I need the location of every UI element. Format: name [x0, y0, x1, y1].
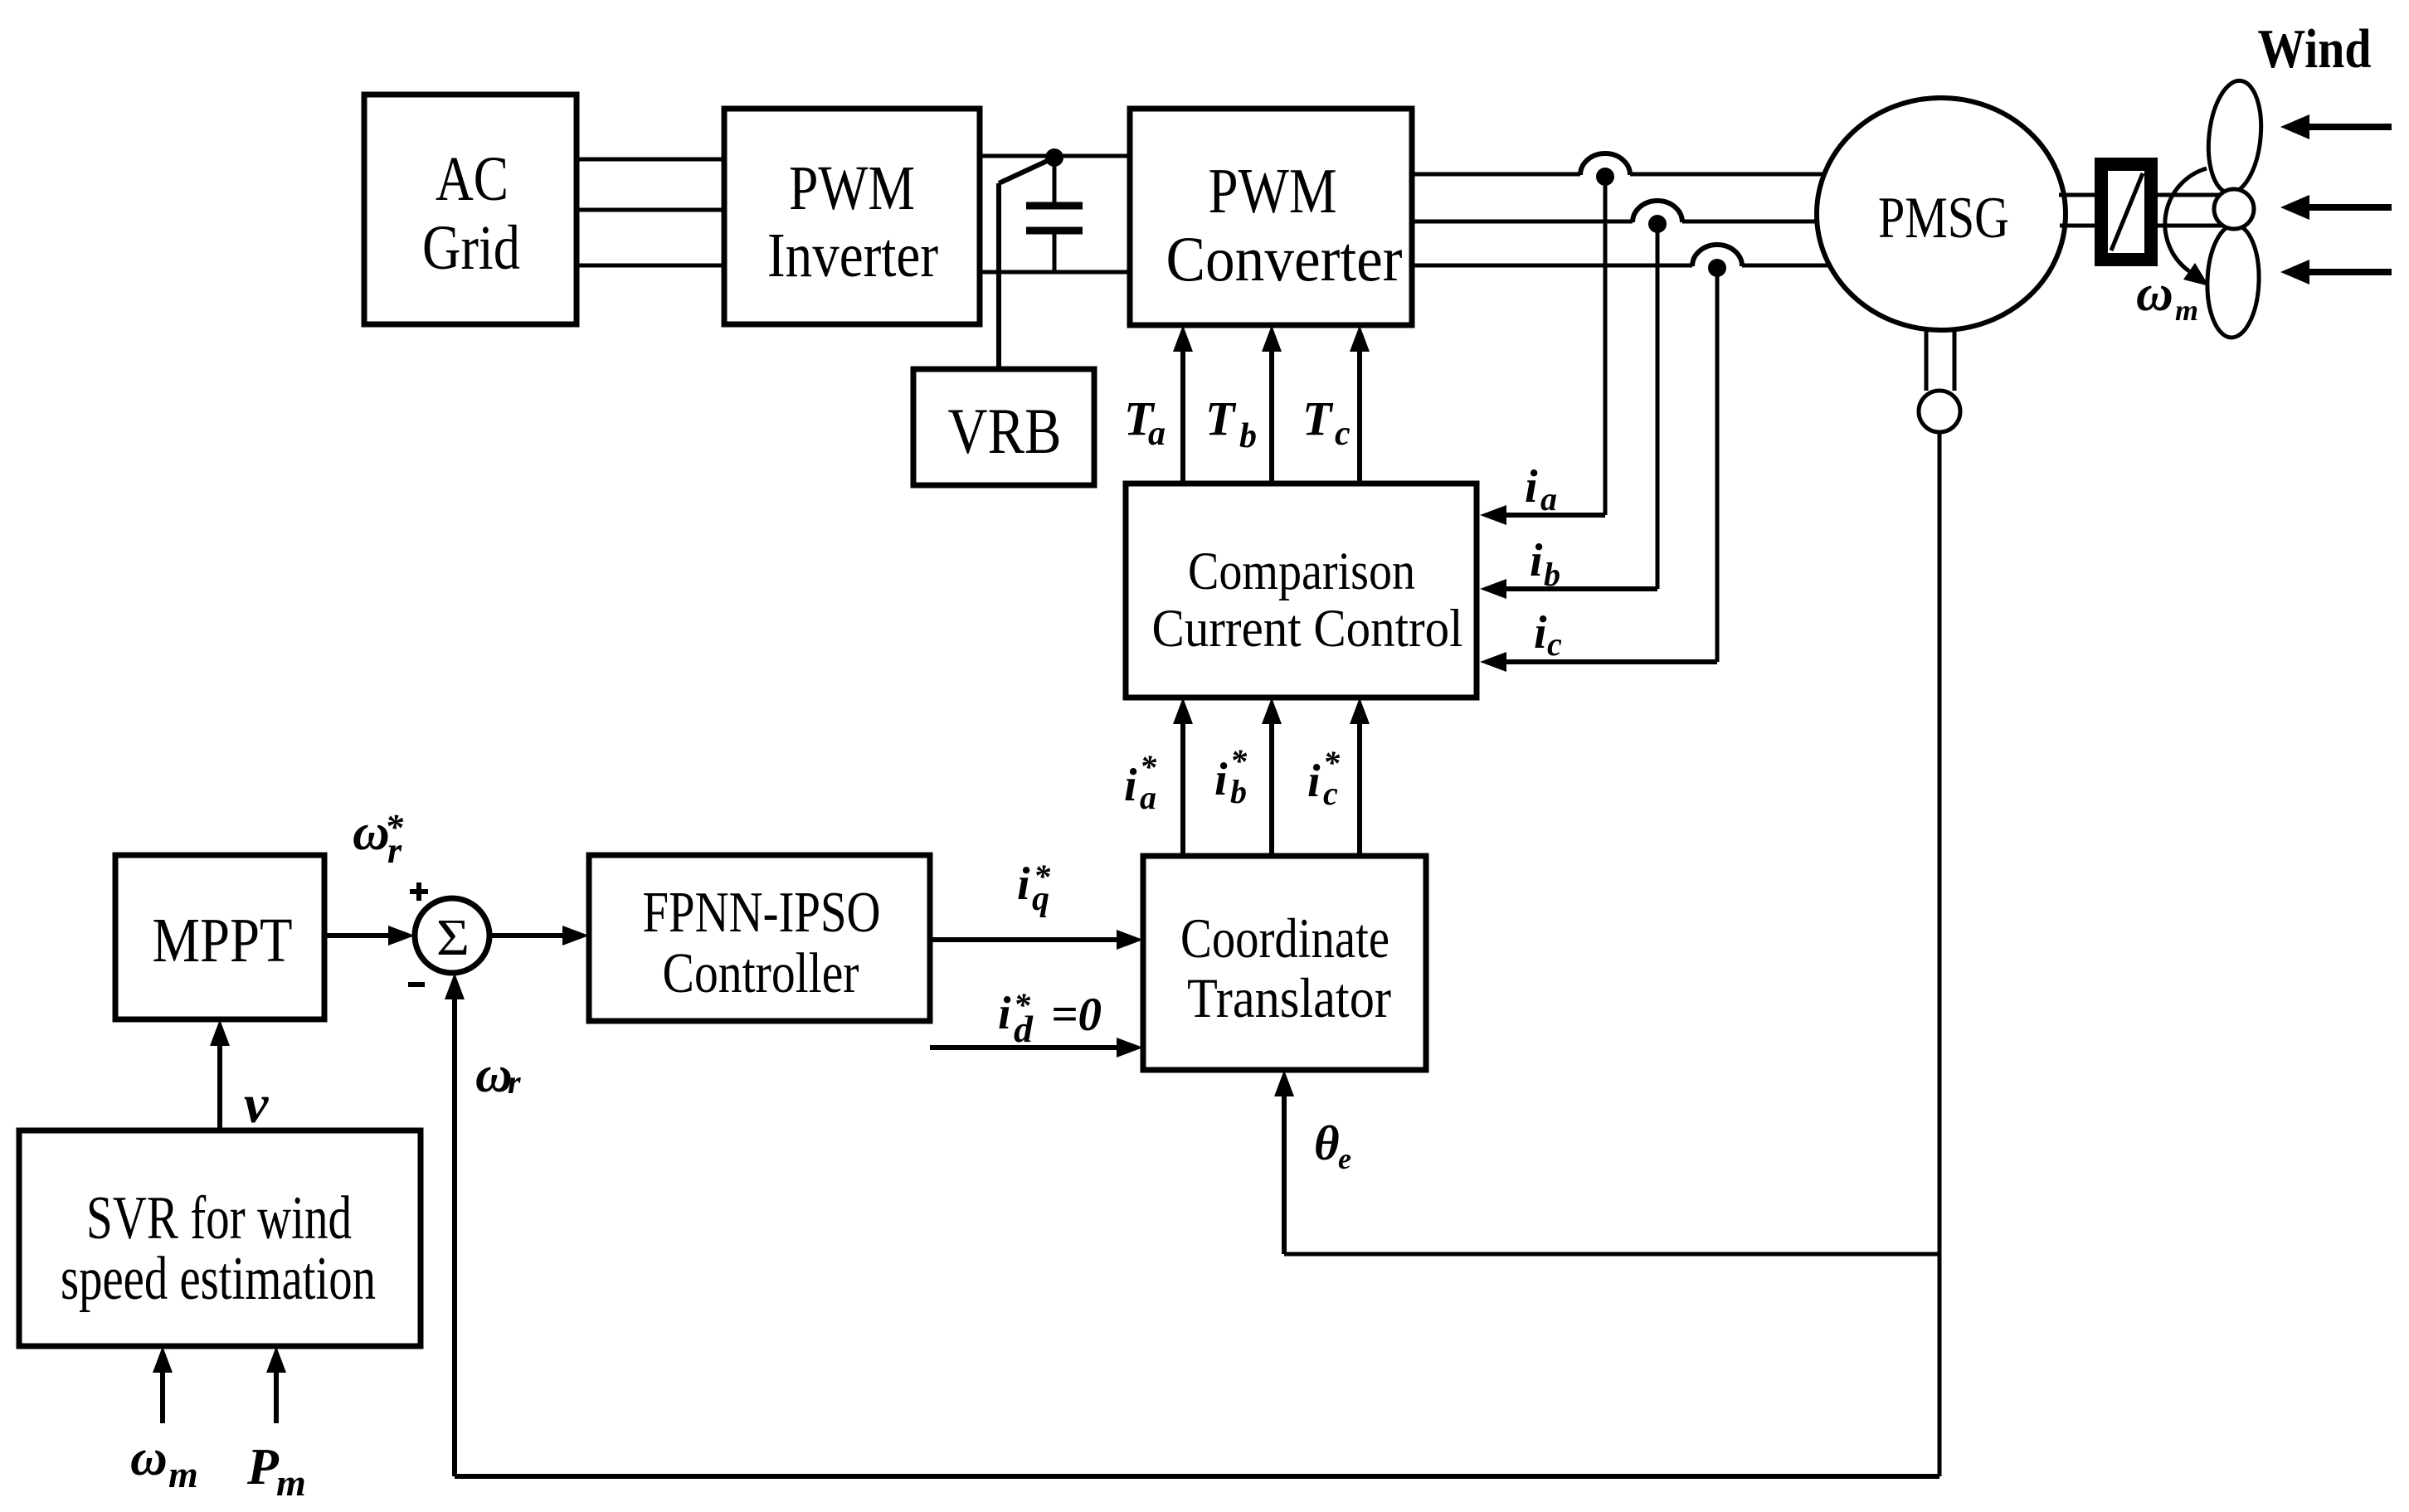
- svg-text:speed estimation: speed estimation: [61, 1245, 376, 1313]
- svg-text:i: i: [1530, 535, 1543, 586]
- svg-text:ν: ν: [244, 1074, 269, 1135]
- svg-text:Comparison: Comparison: [1188, 542, 1415, 601]
- svg-text:Inverter: Inverter: [767, 221, 938, 290]
- svg-text:a: a: [1148, 415, 1166, 453]
- svg-text:b: b: [1230, 773, 1247, 810]
- svg-text:Σ: Σ: [436, 910, 470, 966]
- svg-text:ω: ω: [2136, 265, 2173, 322]
- svg-text:i: i: [1534, 607, 1547, 659]
- svg-text:a: a: [1540, 480, 1557, 518]
- svg-text:Wind: Wind: [2258, 18, 2372, 80]
- svg-text:Grid: Grid: [422, 213, 520, 283]
- svg-text:Controller: Controller: [663, 941, 859, 1004]
- svg-text:T: T: [1205, 391, 1237, 445]
- svg-text:=0: =0: [1051, 989, 1102, 1041]
- svg-text:i: i: [1307, 756, 1321, 807]
- svg-text:i: i: [1214, 754, 1228, 805]
- svg-text:PWM: PWM: [789, 153, 915, 223]
- svg-text:Translator: Translator: [1187, 966, 1391, 1029]
- svg-text:i: i: [1124, 760, 1137, 811]
- svg-text:c: c: [1335, 415, 1350, 453]
- svg-text:c: c: [1547, 625, 1562, 663]
- svg-text:MPPT: MPPT: [153, 906, 293, 975]
- svg-text:i: i: [998, 988, 1011, 1039]
- svg-text:b: b: [1544, 556, 1560, 593]
- svg-text:m: m: [276, 1461, 306, 1504]
- svg-text:r: r: [508, 1063, 521, 1101]
- svg-text:PMSG: PMSG: [1878, 186, 2009, 250]
- svg-text:Current Control: Current Control: [1152, 599, 1463, 659]
- svg-text:c: c: [1323, 775, 1338, 812]
- svg-text:SVR for wind: SVR for wind: [86, 1184, 352, 1252]
- svg-text:q: q: [1032, 880, 1049, 918]
- svg-text:i: i: [1017, 858, 1030, 910]
- svg-text:r: r: [387, 830, 402, 871]
- svg-text:a: a: [1140, 779, 1156, 816]
- svg-text:ω: ω: [130, 1430, 168, 1486]
- svg-text:m: m: [2175, 294, 2198, 327]
- svg-text:d: d: [1014, 1008, 1034, 1050]
- svg-text:AC: AC: [436, 144, 509, 214]
- svg-text:Converter: Converter: [1166, 223, 1403, 294]
- svg-text:e: e: [1338, 1142, 1351, 1175]
- svg-text:P: P: [246, 1439, 280, 1495]
- svg-text:θ: θ: [1314, 1116, 1340, 1170]
- svg-text:FPNN-IPSO: FPNN-IPSO: [643, 881, 881, 945]
- svg-text:VRB: VRB: [948, 395, 1062, 467]
- svg-text:m: m: [168, 1453, 198, 1495]
- svg-text:T: T: [1302, 391, 1334, 445]
- svg-text:Coordinate: Coordinate: [1180, 907, 1389, 970]
- svg-text:b: b: [1239, 417, 1257, 455]
- svg-text:PWM: PWM: [1209, 155, 1337, 226]
- svg-text:i: i: [1525, 461, 1538, 513]
